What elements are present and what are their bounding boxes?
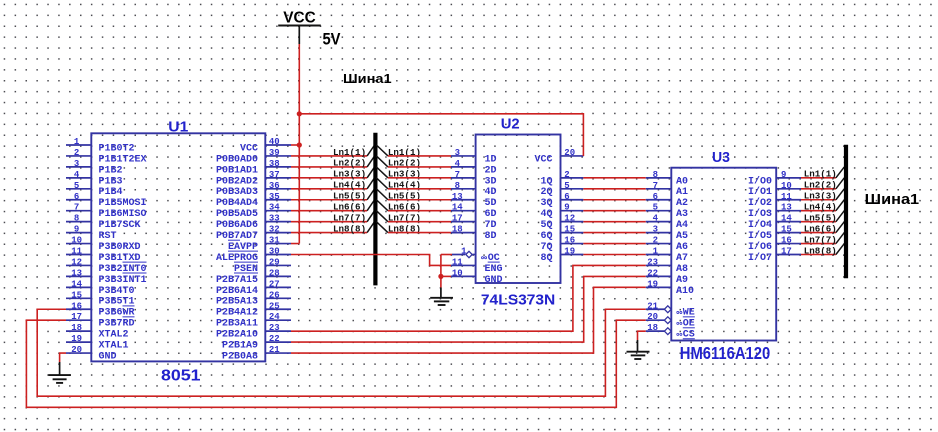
svg-text:VCC: VCC <box>283 9 316 26</box>
svg-text:17: 17 <box>452 214 463 224</box>
svg-text:17: 17 <box>71 312 82 322</box>
svg-text:27: 27 <box>269 279 280 289</box>
svg-text:14: 14 <box>71 279 82 289</box>
U2 right pin stubs <box>561 156 584 255</box>
svg-text:8Q: 8Q <box>541 253 553 264</box>
svg-text:8D: 8D <box>485 231 497 242</box>
wires U3 I/O0-I/O7 to right bus <box>801 178 836 255</box>
svg-text:18: 18 <box>452 225 463 235</box>
wire VCC vertical rail down to EA/VPP pin 31 <box>298 44 300 244</box>
svg-text:P1B0T2: P1B0T2 <box>99 143 135 154</box>
svg-text:19: 19 <box>564 247 575 257</box>
svg-text:I/O7: I/O7 <box>748 252 772 264</box>
svg-text:2: 2 <box>653 236 658 246</box>
svg-text:Ln3(3): Ln3(3) <box>804 191 837 202</box>
svg-text:10: 10 <box>452 268 463 278</box>
svg-text:P2B6A14: P2B6A14 <box>216 286 258 297</box>
svg-text:5Q: 5Q <box>541 220 553 231</box>
svg-text:Ln4(4): Ln4(4) <box>333 180 366 191</box>
svg-text:9: 9 <box>74 225 79 235</box>
svg-text:XTAL2: XTAL2 <box>99 330 129 341</box>
svg-text:A1: A1 <box>676 187 688 198</box>
U1 left pin stubs (pins 1-20) <box>66 145 91 353</box>
svg-text:P3B3INT1: P3B3INT1 <box>99 275 147 286</box>
svg-text:21: 21 <box>269 345 280 355</box>
svg-text:29: 29 <box>269 257 280 267</box>
wire U1 pin 31 EA/VPP tap <box>291 243 299 245</box>
wire U3 pin 18 CS to ground <box>638 331 646 340</box>
svg-text:I/O1: I/O1 <box>748 186 772 198</box>
svg-text:A6: A6 <box>676 242 688 253</box>
svg-text:7: 7 <box>653 181 658 191</box>
svg-text:35: 35 <box>269 192 280 202</box>
svg-text:26: 26 <box>269 290 280 300</box>
svg-text:P1B2: P1B2 <box>99 165 123 176</box>
svg-text:U1: U1 <box>168 119 188 136</box>
svg-text:P2B1A9: P2B1A9 <box>222 341 258 352</box>
svg-text:P1B6MISO: P1B6MISO <box>99 209 147 220</box>
svg-text:16: 16 <box>781 236 792 246</box>
wires U2 outputs 1Q-8Q to U3 A0-A7 <box>583 178 645 255</box>
svg-text:15: 15 <box>781 225 792 235</box>
svg-text:XTAL1: XTAL1 <box>99 341 129 352</box>
wire U2 pin 1 OC to ground rail <box>441 254 452 256</box>
svg-text:P0B2AD2: P0B2AD2 <box>216 176 258 187</box>
svg-text:20: 20 <box>71 345 82 355</box>
svg-text:36: 36 <box>269 181 280 191</box>
svg-text:33: 33 <box>269 214 280 224</box>
wire U2 pin 10 GND <box>441 275 451 277</box>
svg-text:11: 11 <box>781 192 792 202</box>
svg-text:7D: 7D <box>485 220 497 231</box>
svg-text:I/O6: I/O6 <box>748 241 772 253</box>
svg-text:4: 4 <box>455 159 461 169</box>
svg-text:P3B4T0: P3B4T0 <box>99 286 135 297</box>
svg-text:39: 39 <box>269 148 280 158</box>
svg-text:12: 12 <box>71 257 82 267</box>
svg-text:A10: A10 <box>676 286 694 297</box>
svg-text:Ln6(6): Ln6(6) <box>333 202 366 213</box>
U2 left pin numbers <box>452 148 467 278</box>
svg-text:4D: 4D <box>485 187 497 198</box>
svg-text:P2B5A13: P2B5A13 <box>216 297 258 308</box>
svg-text:19: 19 <box>71 334 82 344</box>
svg-text:P0B3AD3: P0B3AD3 <box>216 187 258 198</box>
svg-text:13: 13 <box>71 268 82 278</box>
svg-text:Шина1: Шина1 <box>343 71 392 86</box>
svg-text:P3B7RD: P3B7RD <box>99 319 135 330</box>
svg-text:14: 14 <box>781 214 792 224</box>
svg-text:P2B7A15: P2B7A15 <box>216 275 258 286</box>
svg-text:Ln3(3): Ln3(3) <box>333 169 366 180</box>
svg-text:17: 17 <box>781 247 792 257</box>
U2 left pin names 1D-8D OC ENG GND <box>482 154 503 285</box>
U1 right pin stubs (pins 40-21) <box>265 145 291 353</box>
svg-text:GND: GND <box>485 275 503 286</box>
svg-text:2Q: 2Q <box>541 187 553 198</box>
svg-text:6: 6 <box>653 192 658 202</box>
svg-text:10: 10 <box>71 236 82 246</box>
svg-text:31: 31 <box>269 236 280 246</box>
ground symbol at U1 <box>48 362 71 383</box>
svg-text:14: 14 <box>452 203 463 213</box>
svg-text:28: 28 <box>269 268 280 278</box>
svg-text:10: 10 <box>781 181 792 191</box>
U3 left pin numbers <box>647 170 658 333</box>
svg-text:P3B0RXD: P3B0RXD <box>99 242 141 253</box>
svg-text:Ln2(2): Ln2(2) <box>804 180 837 191</box>
svg-text:Ln8(8): Ln8(8) <box>804 245 837 256</box>
svg-text:5: 5 <box>74 181 79 191</box>
svg-text:1: 1 <box>74 137 80 147</box>
svg-text:8: 8 <box>653 170 658 180</box>
svg-text:A3: A3 <box>676 209 688 220</box>
svg-text:3Q: 3Q <box>541 198 553 209</box>
svg-text:6: 6 <box>564 192 569 202</box>
svg-text:A7: A7 <box>676 253 688 264</box>
svg-text:ENG: ENG <box>485 264 503 275</box>
svg-text:A4: A4 <box>676 220 688 231</box>
U1 left pin numbers 1-20 <box>71 137 82 355</box>
svg-text:I/O2: I/O2 <box>748 197 772 209</box>
svg-text:6Q: 6Q <box>541 231 553 242</box>
svg-text:6: 6 <box>74 192 79 202</box>
svg-text:P1B4: P1B4 <box>99 187 123 198</box>
ground symbol at U2 <box>430 288 453 306</box>
wire U1 pin 16 WR to U3 pin 21 WE <box>37 309 646 396</box>
svg-text:Ln1(1): Ln1(1) <box>333 147 366 158</box>
svg-text:VCC: VCC <box>240 143 258 154</box>
svg-text:15: 15 <box>564 225 575 235</box>
svg-text:A0: A0 <box>676 176 688 187</box>
svg-text:5: 5 <box>653 203 658 213</box>
U1 right pin numbers 40-21 <box>269 137 280 355</box>
svg-text:Ln6(6): Ln6(6) <box>804 223 837 234</box>
svg-text:A5: A5 <box>676 231 688 242</box>
svg-text:I/O4: I/O4 <box>748 219 772 231</box>
U1 right pin names VCC/P0/EA/ALE/PSEN/P2 <box>216 143 258 362</box>
svg-text:P2B0A8: P2B0A8 <box>222 351 258 362</box>
IC U1 8051 body outline <box>91 133 265 361</box>
bus entries right of middle bus <box>376 145 388 233</box>
svg-text:2: 2 <box>74 148 79 158</box>
svg-text:3: 3 <box>455 148 460 158</box>
bus entries left of middle bus <box>367 145 375 233</box>
svg-text:P2B4A12: P2B4A12 <box>216 308 258 319</box>
wire U1 pin 22 to U3 A9 <box>291 276 646 342</box>
svg-text:22: 22 <box>269 334 280 344</box>
svg-text:16: 16 <box>71 301 82 311</box>
wires U1 P0 port pins 39-32 to bus Шина1 <box>291 156 367 233</box>
VCC power symbol <box>278 9 321 44</box>
svg-text:6D: 6D <box>485 209 497 220</box>
svg-text:Ln4(4): Ln4(4) <box>804 202 837 213</box>
wire U1 pin 40 VCC <box>291 144 299 146</box>
svg-text:P0B6AD6: P0B6AD6 <box>216 220 258 231</box>
svg-text:GND: GND <box>99 351 117 362</box>
junction dot VCC rail / horizontal feed <box>297 111 302 116</box>
svg-text:11: 11 <box>71 247 82 257</box>
svg-text:12: 12 <box>564 214 575 224</box>
svg-text:2D: 2D <box>485 165 497 176</box>
svg-text:P1B1T2EX: P1B1T2EX <box>99 154 147 165</box>
net labels Ln1(1)-Ln8(8) at right bus <box>804 169 837 257</box>
svg-text:P1B7SCK: P1B7SCK <box>99 220 141 231</box>
svg-text:A9: A9 <box>676 275 688 286</box>
wire U1 pin 20 GND to ground <box>60 353 66 362</box>
svg-text:23: 23 <box>269 323 280 333</box>
svg-text:3: 3 <box>653 225 658 235</box>
right bus Шина1 vertical thick line <box>844 145 848 278</box>
bus entries right bus <box>836 167 844 255</box>
svg-text:7: 7 <box>455 170 460 180</box>
svg-text:P0B1AD1: P0B1AD1 <box>216 165 258 176</box>
svg-text:40: 40 <box>269 137 280 147</box>
ground symbol at U3 <box>627 340 650 359</box>
svg-text:HM6116A120: HM6116A120 <box>680 343 771 363</box>
U3 left pin names A0-A10 WE OE CS <box>676 176 695 340</box>
svg-text:15: 15 <box>71 290 82 300</box>
wires middle bus to U2 inputs 1D-8D <box>388 156 451 233</box>
svg-text:30: 30 <box>269 247 280 257</box>
svg-text:9: 9 <box>564 203 569 213</box>
svg-text:Ln7(7): Ln7(7) <box>804 234 837 245</box>
svg-text:RST: RST <box>99 231 117 242</box>
svg-text:20: 20 <box>564 148 575 158</box>
svg-text:23: 23 <box>647 257 658 267</box>
svg-text:VCC: VCC <box>535 154 553 165</box>
svg-text:Ln7(7): Ln7(7) <box>333 212 366 223</box>
svg-text:11: 11 <box>452 257 463 267</box>
svg-text:18: 18 <box>647 323 658 333</box>
svg-text:8: 8 <box>455 181 460 191</box>
svg-text:I/O3: I/O3 <box>748 208 772 220</box>
svg-text:5D: 5D <box>485 198 497 209</box>
svg-text:P0B5AD5: P0B5AD5 <box>216 209 258 220</box>
svg-text:37: 37 <box>269 170 280 180</box>
svg-text:Ln1(1): Ln1(1) <box>804 169 837 180</box>
U2 right pin names VCC 1Q-8Q <box>535 154 553 264</box>
svg-text:8051: 8051 <box>161 368 201 385</box>
svg-text:4: 4 <box>653 214 659 224</box>
svg-text:Ln8(8): Ln8(8) <box>333 223 366 234</box>
net labels Ln1(1)-Ln8(8) left of middle bus <box>333 147 366 235</box>
svg-text:21: 21 <box>647 301 658 311</box>
IC U3 HM6116A120 body outline <box>671 168 776 341</box>
U3 right pin numbers <box>781 170 792 257</box>
svg-text:24: 24 <box>269 312 280 322</box>
svg-text:8: 8 <box>74 214 79 224</box>
svg-text:20: 20 <box>647 312 658 322</box>
svg-text:2: 2 <box>564 170 569 180</box>
svg-text:32: 32 <box>269 225 280 235</box>
svg-text:3: 3 <box>74 159 79 169</box>
svg-text:A2: A2 <box>676 198 688 209</box>
svg-text:5V: 5V <box>323 29 342 48</box>
svg-text:25: 25 <box>269 301 280 311</box>
svg-text:16: 16 <box>564 236 575 246</box>
U2 inverted input diamond on pin 1 OC <box>466 251 472 257</box>
middle bus Шина1 vertical thick line <box>373 133 377 286</box>
svg-text:1D: 1D <box>485 154 497 165</box>
svg-text:P2B2A10: P2B2A10 <box>216 330 258 341</box>
U3 right pin names I/O0-I/O7 <box>748 175 772 264</box>
U2 left pin stubs <box>451 156 476 276</box>
svg-text:19: 19 <box>647 279 658 289</box>
svg-text:13: 13 <box>781 203 792 213</box>
wire U1 pin 23 to U3 A8 <box>291 265 646 331</box>
svg-text:7Q: 7Q <box>541 242 553 253</box>
svg-text:34: 34 <box>269 203 280 213</box>
svg-text:U3: U3 <box>712 149 730 166</box>
svg-text:3D: 3D <box>485 176 497 187</box>
svg-text:P1B5MOSI: P1B5MOSI <box>99 198 147 209</box>
wire U1 pin 30 ALE/PROG to U2 pin 11 ENG <box>291 255 451 266</box>
svg-text:13: 13 <box>452 192 463 202</box>
svg-text:Ln2(2): Ln2(2) <box>333 158 366 169</box>
IC U2 74LS373N body outline <box>476 135 561 284</box>
net labels Ln1(1)-Ln8(8) right of middle bus <box>388 147 421 235</box>
svg-text:1: 1 <box>461 247 467 257</box>
svg-text:7: 7 <box>74 203 79 213</box>
svg-text:Шина1: Шина1 <box>865 191 919 208</box>
svg-text:1Q: 1Q <box>541 176 553 187</box>
svg-text:Ln5(5): Ln5(5) <box>333 191 366 202</box>
U3 left pin stubs <box>646 178 672 331</box>
svg-text:1: 1 <box>653 247 659 257</box>
svg-text:18: 18 <box>71 323 82 333</box>
U2 right pin numbers <box>564 148 575 257</box>
U3 inverted input diamonds on WE OE CS <box>664 306 671 335</box>
svg-text:P0B0AD0: P0B0AD0 <box>216 154 258 165</box>
svg-text:P2B3A11: P2B3A11 <box>216 319 258 330</box>
wire U1 pin 17 RD to U3 pin 20 OE <box>26 320 645 407</box>
U1 left pin names P1/P3/RST/XTAL/GND <box>99 143 147 362</box>
svg-text:9: 9 <box>781 170 786 180</box>
svg-text:5: 5 <box>564 181 569 191</box>
svg-text:22: 22 <box>647 268 658 278</box>
svg-text:38: 38 <box>269 159 280 169</box>
svg-text:74LS373N: 74LS373N <box>481 292 555 308</box>
wire VCC feed to U2 pin 20 <box>299 114 583 156</box>
svg-text:I/O5: I/O5 <box>748 230 772 242</box>
ground rail vertical at U2 <box>440 255 442 288</box>
svg-text:4Q: 4Q <box>541 209 553 220</box>
U3 right pin stubs <box>776 178 801 255</box>
wire U1 pin 21 to U3 A10 <box>291 287 646 353</box>
svg-text:I/O0: I/O0 <box>748 175 772 187</box>
svg-text:4: 4 <box>74 170 80 180</box>
svg-text:Ln5(5): Ln5(5) <box>804 212 837 223</box>
junction dot VCC rail / U1 pin 40 <box>297 142 302 147</box>
svg-text:U2: U2 <box>501 115 520 132</box>
junction dot U2 pin 10 GND on ground rail <box>438 274 443 279</box>
svg-text:A8: A8 <box>676 264 688 275</box>
svg-text:P1B3: P1B3 <box>99 176 123 187</box>
svg-text:P0B4AD4: P0B4AD4 <box>216 198 258 209</box>
